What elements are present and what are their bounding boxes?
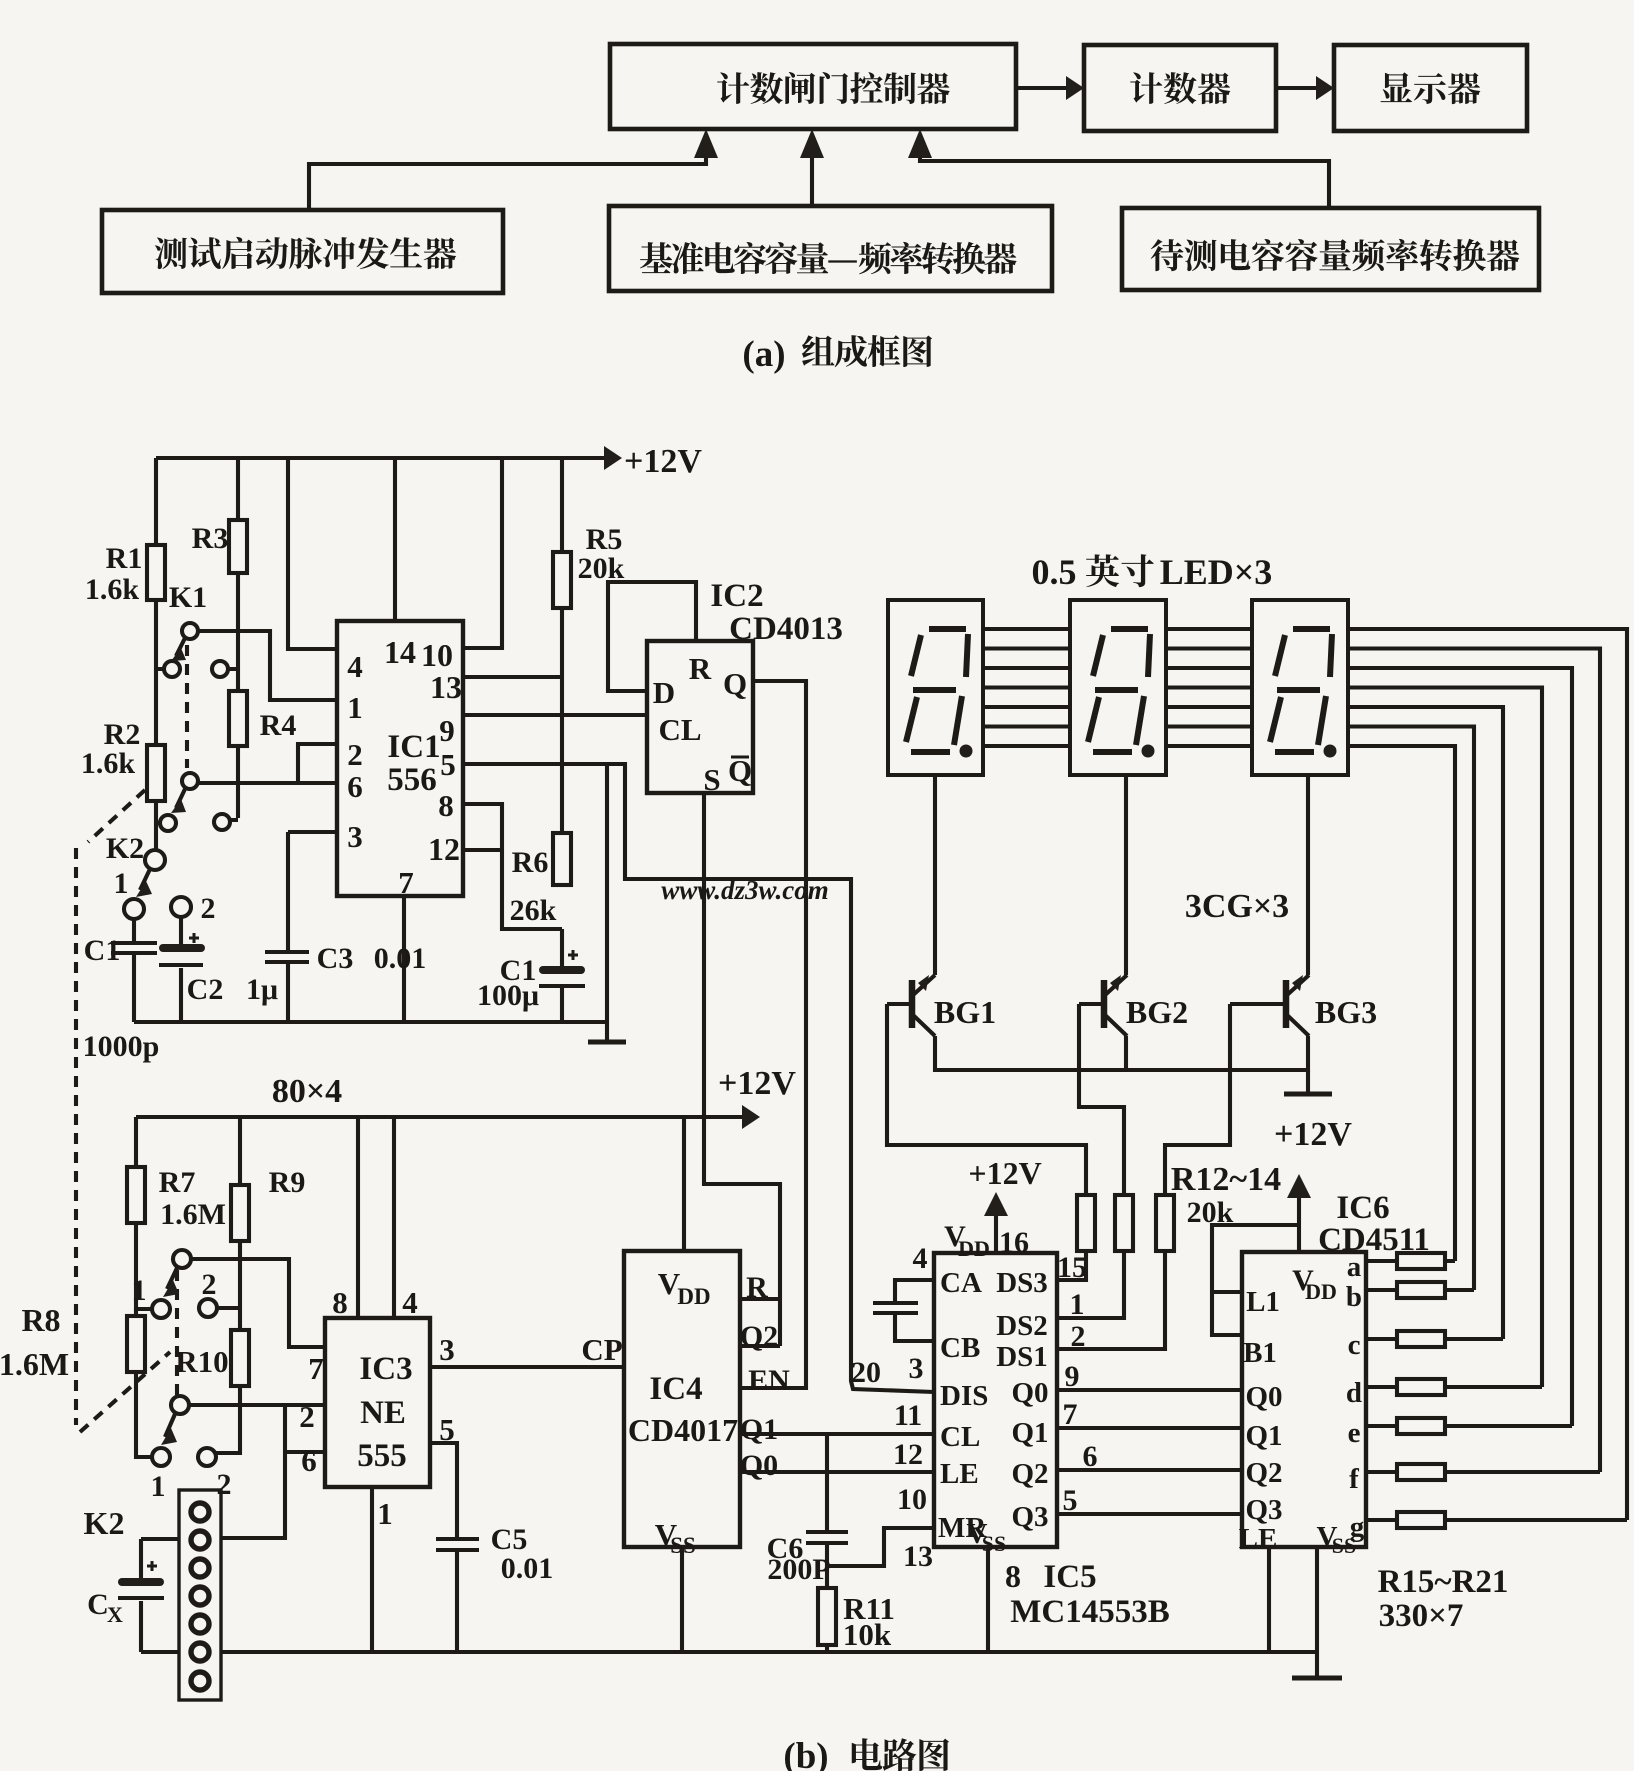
- wire IC5 Q2 to IC6: [1057, 1468, 1242, 1472]
- svg-text:1: 1: [1070, 1288, 1085, 1321]
- svg-text:+12V: +12V: [718, 1065, 796, 1102]
- wire IC1 pin7 to rail: [402, 896, 406, 1022]
- svg-text:K2: K2: [84, 1505, 125, 1541]
- svg-text:0.01: 0.01: [501, 1552, 554, 1585]
- resistor R15 seg a: [1366, 1253, 1455, 1269]
- IC6 +12V arrow: [1287, 1174, 1311, 1252]
- capacitor C6 200P: [806, 1434, 848, 1566]
- IC1 556 box: [337, 621, 463, 896]
- svg-text:f: f: [1349, 1463, 1359, 1495]
- IC6 CD4511 box: [1242, 1252, 1366, 1547]
- svg-text:13: 13: [903, 1540, 933, 1573]
- wire pole2 common to IC3 pin2 pin6: [189, 1405, 325, 1538]
- svg-text:3CG×3: 3CG×3: [1185, 888, 1289, 925]
- svg-text:DIS: DIS: [940, 1380, 988, 1412]
- resistor R14: [1156, 1195, 1174, 1251]
- socket K2 strip: [179, 1490, 221, 1700]
- Qbar overline: [731, 756, 749, 759]
- svg-text:Q0: Q0: [1245, 1381, 1282, 1413]
- blktext 待测电容容量频率转换器: [1151, 239, 1520, 272]
- wire IC5 Q3 to IC6: [1057, 1512, 1242, 1516]
- wire IC4 Q1 to IC5 CL: [740, 1432, 934, 1436]
- resistor R1: [147, 545, 165, 600]
- wire collectors common: [935, 1036, 1308, 1070]
- svg-text:(a): (a): [742, 334, 785, 375]
- svg-text:13: 13: [430, 669, 462, 705]
- wire 80x4 to R7: [134, 1117, 138, 1167]
- svg-text:LED×3: LED×3: [1160, 552, 1273, 592]
- IC2 pin labels: [653, 651, 752, 797]
- svg-text:2: 2: [201, 892, 216, 925]
- svg-text:(b): (b): [783, 1736, 828, 1771]
- svg-text:CD4017: CD4017: [628, 1412, 738, 1448]
- wire rail to IC1 pin14: [393, 458, 397, 621]
- svg-text:8: 8: [1005, 1558, 1021, 1594]
- blktext 测试启动脉冲发生器: [155, 237, 456, 269]
- svg-text:12: 12: [428, 831, 460, 867]
- resistor R3: [229, 520, 247, 573]
- svg-text:8: 8: [332, 1285, 348, 1320]
- wire R4 to contact: [231, 746, 238, 820]
- svg-text:BG3: BG3: [1315, 994, 1377, 1030]
- capacitor C2 1u: [159, 917, 205, 1022]
- switch K1 pole1: [164, 623, 228, 677]
- svg-text:2: 2: [202, 1268, 217, 1301]
- svg-text:R7: R7: [159, 1166, 196, 1199]
- svg-text:10: 10: [897, 1483, 927, 1516]
- capacitor Cx: [118, 1539, 164, 1652]
- svg-text:Q2: Q2: [740, 1320, 778, 1353]
- resistor R7: [127, 1167, 145, 1223]
- capacitor C3 0.01: [265, 832, 309, 1022]
- svg-text:15: 15: [1057, 1251, 1087, 1284]
- ground symbol transistors: [1284, 1092, 1332, 1097]
- svg-text:3: 3: [909, 1352, 924, 1385]
- svg-text:R6: R6: [512, 846, 549, 879]
- bottom rail of 556 section: [134, 1020, 607, 1024]
- svg-text:1.6M: 1.6M: [160, 1198, 226, 1231]
- wire IC3 pin1 to rail: [370, 1487, 374, 1652]
- resistor R8: [127, 1316, 145, 1372]
- svg-text:C1: C1: [84, 934, 121, 967]
- IC3 NE555 box: [325, 1318, 430, 1487]
- svg-text:Q: Q: [723, 666, 747, 701]
- wire IC5 DS3 to R12: [1057, 1251, 1086, 1280]
- wire block1 to block2 arrow: [1016, 76, 1084, 100]
- svg-text:2: 2: [217, 1468, 232, 1501]
- block 显示器: [1334, 45, 1527, 131]
- wire IC2 S to IC4 R Q2: [704, 793, 780, 1346]
- resistor R6: [553, 833, 571, 885]
- svg-text:26k: 26k: [510, 894, 557, 927]
- wire R1 to R2 node: [156, 600, 163, 745]
- blktext 基准电容容量频率转换器: [640, 242, 1017, 275]
- wire IC2 Q to IC4 EN: [740, 681, 806, 1388]
- resistor R2: [147, 745, 165, 801]
- label 英寸: [1086, 554, 1154, 587]
- svg-text:g: g: [1350, 1511, 1365, 1543]
- resistor R19 seg e: [1366, 1418, 1572, 1434]
- svg-text:5: 5: [439, 1412, 455, 1447]
- svg-text:K2: K2: [106, 832, 144, 865]
- svg-text:4: 4: [347, 649, 363, 684]
- wire IC6 Vss to ground: [1315, 1547, 1319, 1677]
- svg-text:9: 9: [1065, 1360, 1080, 1393]
- 80x4 supply wire: [136, 1105, 760, 1129]
- resistor R9: [231, 1185, 249, 1241]
- svg-text:Q0: Q0: [1011, 1377, 1048, 1409]
- wire LED2 cathode to BG2: [1124, 775, 1128, 975]
- transistor BG1: [887, 975, 935, 1036]
- IC4 CD4017 box: [624, 1251, 740, 1547]
- svg-text:4: 4: [913, 1242, 928, 1275]
- svg-text:C: C: [87, 1588, 109, 1621]
- resistor R11: [818, 1588, 836, 1645]
- LED display DS1: [888, 600, 983, 775]
- caption 电路图: [852, 1738, 949, 1771]
- svg-text:6: 6: [301, 1443, 317, 1478]
- svg-text:e: e: [1348, 1417, 1361, 1449]
- svg-text:8: 8: [438, 788, 454, 823]
- svg-text:+12V: +12V: [624, 443, 702, 480]
- svg-text:X: X: [107, 1602, 123, 1627]
- capacitor C1 100u: [539, 929, 585, 1022]
- wire BG3 base to R14: [1165, 1004, 1230, 1195]
- svg-text:CD4511: CD4511: [1318, 1222, 1430, 1258]
- svg-text:R8: R8: [21, 1302, 60, 1338]
- blktext 计数器: [1130, 72, 1230, 104]
- svg-text:B1: B1: [1243, 1337, 1277, 1369]
- block 基准电容容量一频率转换器: [609, 206, 1052, 291]
- wire 80x4 to IC3 pin8: [356, 1117, 360, 1318]
- svg-text:C3: C3: [317, 942, 354, 975]
- svg-text:S: S: [703, 762, 720, 797]
- svg-text:20k: 20k: [1187, 1196, 1234, 1229]
- svg-text:200P: 200P: [767, 1553, 830, 1586]
- svg-text:R15~R21: R15~R21: [1378, 1564, 1509, 1600]
- svg-text:1.6k: 1.6k: [85, 573, 140, 606]
- capacitor C1 1000p: [111, 919, 157, 1022]
- svg-text:0.01: 0.01: [374, 942, 427, 975]
- mechanical dashed link K1-K2: [76, 645, 187, 1432]
- svg-text:K1: K1: [169, 581, 207, 614]
- block 计数闸门控制器: [610, 44, 1016, 129]
- wire IC3 pin3 CP to IC4: [430, 1365, 624, 1369]
- blktext 显示器: [1380, 72, 1480, 104]
- wire LED3 cathode to BG3: [1306, 775, 1310, 975]
- ground symbol IC6: [1292, 1676, 1342, 1681]
- switch K1 pole2: [160, 773, 230, 831]
- wire IC6 LE to rail: [1267, 1547, 1271, 1652]
- svg-text:DD: DD: [1305, 1279, 1337, 1304]
- wire R10 to contact2: [216, 1386, 240, 1453]
- svg-text:Q2: Q2: [1245, 1457, 1282, 1489]
- svg-text:7: 7: [1063, 1398, 1078, 1431]
- svg-text:Q1: Q1: [1245, 1420, 1282, 1452]
- wire pole2 common to IC1 pins2 6: [198, 744, 337, 783]
- wire 80x4 to IC3 pin4: [392, 1117, 396, 1318]
- wire Cx to socket: [141, 1537, 179, 1541]
- wire BG1 base to R12: [887, 1004, 1086, 1195]
- wire IC5 Q1 to IC6: [1057, 1426, 1242, 1430]
- wire R9 to R10: [217, 1241, 240, 1330]
- svg-text:Q3: Q3: [1245, 1494, 1282, 1526]
- svg-text:d: d: [1346, 1377, 1362, 1409]
- wire IC4 Q0 to IC5 LE: [740, 1470, 934, 1474]
- svg-text:2: 2: [299, 1399, 315, 1434]
- svg-text:CL: CL: [658, 712, 701, 747]
- wire IC1 pin5 long to IC5 DIS: [463, 764, 934, 1392]
- svg-text:20: 20: [851, 1356, 881, 1389]
- svg-text:CB: CB: [940, 1332, 980, 1364]
- svg-text:R: R: [689, 651, 712, 686]
- block 计数器: [1084, 45, 1276, 131]
- svg-text:80×4: 80×4: [272, 1073, 342, 1110]
- wire R11 leads: [825, 1566, 829, 1652]
- svg-text:R10: R10: [175, 1344, 228, 1379]
- blktext 计数闸门控制器: [717, 72, 950, 104]
- svg-text:12: 12: [893, 1438, 923, 1471]
- wire BG2 base to R13: [1079, 1004, 1124, 1195]
- wire IC3 pin5 to C5: [430, 1443, 457, 1539]
- svg-text:3: 3: [439, 1332, 455, 1367]
- svg-text:Q1: Q1: [740, 1413, 778, 1446]
- svg-text:BG2: BG2: [1126, 994, 1188, 1030]
- svg-text:R4: R4: [260, 709, 297, 742]
- svg-text:IC2: IC2: [710, 578, 763, 614]
- switch NE555 pole1: [152, 1250, 217, 1318]
- svg-text:0.5: 0.5: [1032, 552, 1077, 592]
- svg-text:R: R: [746, 1271, 768, 1304]
- wire rail to IC1 pin4: [288, 458, 337, 649]
- svg-text:10: 10: [421, 637, 453, 673]
- wire pin5 ground stub: [605, 764, 609, 1040]
- svg-text:IC4: IC4: [649, 1371, 702, 1407]
- svg-text:DS2: DS2: [996, 1310, 1048, 1342]
- wire IC5 DS1 to R14: [1057, 1251, 1165, 1349]
- wire R5 to R6 with pin13 junction: [463, 608, 562, 833]
- svg-text:11: 11: [894, 1399, 922, 1432]
- wire pole1 common to IC3 pin7: [191, 1259, 325, 1347]
- wire rail to R3: [236, 458, 240, 520]
- svg-text:CA: CA: [940, 1267, 982, 1299]
- svg-text:b: b: [1346, 1281, 1362, 1313]
- wire R7 to contact1: [136, 1223, 152, 1309]
- svg-text:D: D: [653, 675, 675, 710]
- block 测试启动脉冲发生器: [102, 210, 503, 293]
- wire IC5 CA CB capacitor loop: [873, 1280, 934, 1341]
- svg-text:6: 6: [1083, 1440, 1098, 1473]
- svg-text:EN: EN: [748, 1364, 790, 1397]
- svg-text:R12~14: R12~14: [1171, 1161, 1281, 1198]
- svg-text:100μ: 100μ: [477, 979, 539, 1012]
- wire IC1 pin9 to IC2 CL: [463, 713, 647, 717]
- IC2 CD4013 box: [647, 641, 753, 793]
- svg-text:5: 5: [1063, 1484, 1078, 1517]
- svg-text:R3: R3: [192, 522, 229, 555]
- svg-text:www.dz3w.com: www.dz3w.com: [661, 875, 829, 905]
- svg-text:NE: NE: [360, 1395, 406, 1431]
- wire R3 to R4: [229, 573, 238, 691]
- svg-text:1: 1: [347, 690, 363, 725]
- wire 80x4 to IC4 VDD: [682, 1117, 686, 1251]
- wire IC1 pin3: [288, 830, 337, 834]
- resistor R4: [229, 691, 247, 746]
- ground stub transistors: [1306, 1070, 1310, 1092]
- svg-text:2: 2: [1071, 1320, 1086, 1353]
- resistor R20 seg f: [1366, 1464, 1600, 1480]
- svg-text:IC5: IC5: [1043, 1559, 1096, 1595]
- wire 80x4 to R9: [238, 1117, 242, 1185]
- svg-text:R9: R9: [269, 1166, 306, 1199]
- wire rail to R5: [560, 458, 564, 552]
- svg-text:1.6k: 1.6k: [81, 747, 136, 780]
- IC3 pin labels: [299, 1285, 455, 1531]
- wire R2 to K2: [156, 801, 159, 849]
- wire R8 leads: [136, 1309, 152, 1457]
- svg-text:1μ: 1μ: [246, 973, 278, 1006]
- svg-text:+12V: +12V: [968, 1155, 1041, 1191]
- resistor R18 seg d: [1366, 1379, 1542, 1395]
- svg-text:CL: CL: [940, 1421, 980, 1453]
- ground rail bottom: [141, 1650, 1317, 1654]
- svg-text:a: a: [1347, 1251, 1362, 1283]
- ground symbol 556: [588, 1040, 626, 1045]
- wire IC1 pin10 to rail: [463, 458, 502, 648]
- svg-text:DS3: DS3: [996, 1267, 1048, 1299]
- svg-text:Q2: Q2: [1011, 1458, 1048, 1490]
- LED display DS2: [1070, 600, 1166, 775]
- caption 组成框图: [802, 335, 932, 367]
- wire rail to R1: [154, 458, 158, 545]
- wire IC5 Q0 to IC6: [1057, 1388, 1242, 1392]
- wire C6 to IC5 MR pin13: [827, 1528, 934, 1566]
- wire right block up to controller: [908, 129, 1329, 208]
- svg-text:6: 6: [347, 769, 363, 804]
- svg-text:1: 1: [114, 867, 129, 900]
- wire IC4 Vss to rail: [680, 1547, 684, 1652]
- svg-text:1: 1: [151, 1470, 166, 1503]
- svg-text:Q1: Q1: [1011, 1417, 1048, 1449]
- svg-text:2: 2: [347, 737, 363, 772]
- resistor R5: [553, 552, 571, 608]
- wire IC1 pin8 pin12 to R6 bottom: [463, 804, 562, 929]
- svg-text:BG1: BG1: [934, 994, 996, 1030]
- segment bus lines: [983, 629, 1627, 1520]
- svg-text:20k: 20k: [578, 552, 625, 585]
- capacitor C5 0.01: [436, 1539, 479, 1652]
- svg-text:556: 556: [387, 762, 437, 798]
- svg-text:7: 7: [308, 1351, 324, 1386]
- wire block2 to block3 arrow: [1276, 76, 1334, 100]
- svg-text:R1: R1: [106, 542, 143, 575]
- svg-text:330×7: 330×7: [1379, 1598, 1464, 1634]
- wire IC5 Vss to rail: [986, 1547, 990, 1652]
- svg-text:1: 1: [132, 1274, 147, 1307]
- svg-text:SS: SS: [670, 1533, 696, 1558]
- resistor R10: [231, 1330, 249, 1386]
- resistor R12: [1077, 1195, 1095, 1251]
- IC1 pin labels: [347, 634, 462, 900]
- wire LED1 cathode to BG1: [933, 775, 937, 975]
- svg-text:LE: LE: [940, 1458, 979, 1490]
- svg-text:CD4013: CD4013: [729, 611, 843, 647]
- IC5 MC14553B box: [934, 1253, 1057, 1547]
- svg-text:SS: SS: [982, 1531, 1006, 1556]
- wire IC5 DS2 to R13: [1057, 1251, 1124, 1318]
- svg-text:C2: C2: [187, 973, 224, 1006]
- resistor R17 seg c: [1366, 1331, 1503, 1347]
- transistor BG3: [1230, 975, 1309, 1036]
- svg-text:DS1: DS1: [996, 1341, 1048, 1373]
- svg-text:1000p: 1000p: [83, 1030, 160, 1063]
- svg-text:L1: L1: [1246, 1286, 1280, 1318]
- svg-text:c: c: [1348, 1329, 1361, 1361]
- svg-text:DD: DD: [677, 1284, 710, 1309]
- resistor R16 seg b: [1366, 1282, 1474, 1298]
- transistor BG2: [1079, 975, 1127, 1036]
- svg-text:IC6: IC6: [1336, 1190, 1389, 1226]
- svg-text:CP: CP: [581, 1332, 622, 1367]
- svg-text:7: 7: [398, 865, 414, 900]
- switch K2: [124, 850, 191, 919]
- svg-text:IC1: IC1: [387, 729, 440, 765]
- svg-text:16: 16: [999, 1226, 1029, 1259]
- wire IC6 L1 B1 tie: [1212, 1225, 1299, 1335]
- svg-text:MC14553B: MC14553B: [1010, 1594, 1170, 1630]
- svg-text:4: 4: [402, 1285, 418, 1320]
- wire K1 common to IC1 pin1: [198, 631, 337, 700]
- svg-text:1: 1: [377, 1496, 393, 1531]
- wire left block up to controller: [309, 129, 718, 210]
- svg-text:DD: DD: [958, 1236, 990, 1261]
- svg-text:1.6M: 1.6M: [0, 1346, 69, 1382]
- svg-text:LE: LE: [1239, 1523, 1278, 1555]
- svg-text:+12V: +12V: [1274, 1116, 1352, 1153]
- resistor R13: [1115, 1195, 1133, 1251]
- block 待测电容容量频率转换器: [1122, 208, 1539, 290]
- switch NE555 pole2: [152, 1396, 216, 1466]
- resistor R21 seg g: [1366, 1512, 1627, 1528]
- svg-text:14: 14: [384, 634, 416, 670]
- LED display DS3: [1252, 600, 1348, 775]
- svg-text:Q0: Q0: [740, 1449, 778, 1482]
- svg-text:Q3: Q3: [1011, 1501, 1048, 1533]
- svg-text:9: 9: [439, 713, 455, 748]
- svg-text:555: 555: [357, 1438, 407, 1474]
- svg-text:IC3: IC3: [359, 1351, 412, 1387]
- svg-text:3: 3: [347, 819, 363, 854]
- svg-text:10k: 10k: [843, 1617, 892, 1652]
- wire IC2 D R loop: [608, 582, 696, 691]
- IC5 +12V arrow: [984, 1192, 1008, 1253]
- +12V rail top: [156, 446, 622, 470]
- svg-text:5: 5: [440, 747, 456, 782]
- wire middle block up to controller: [800, 129, 824, 206]
